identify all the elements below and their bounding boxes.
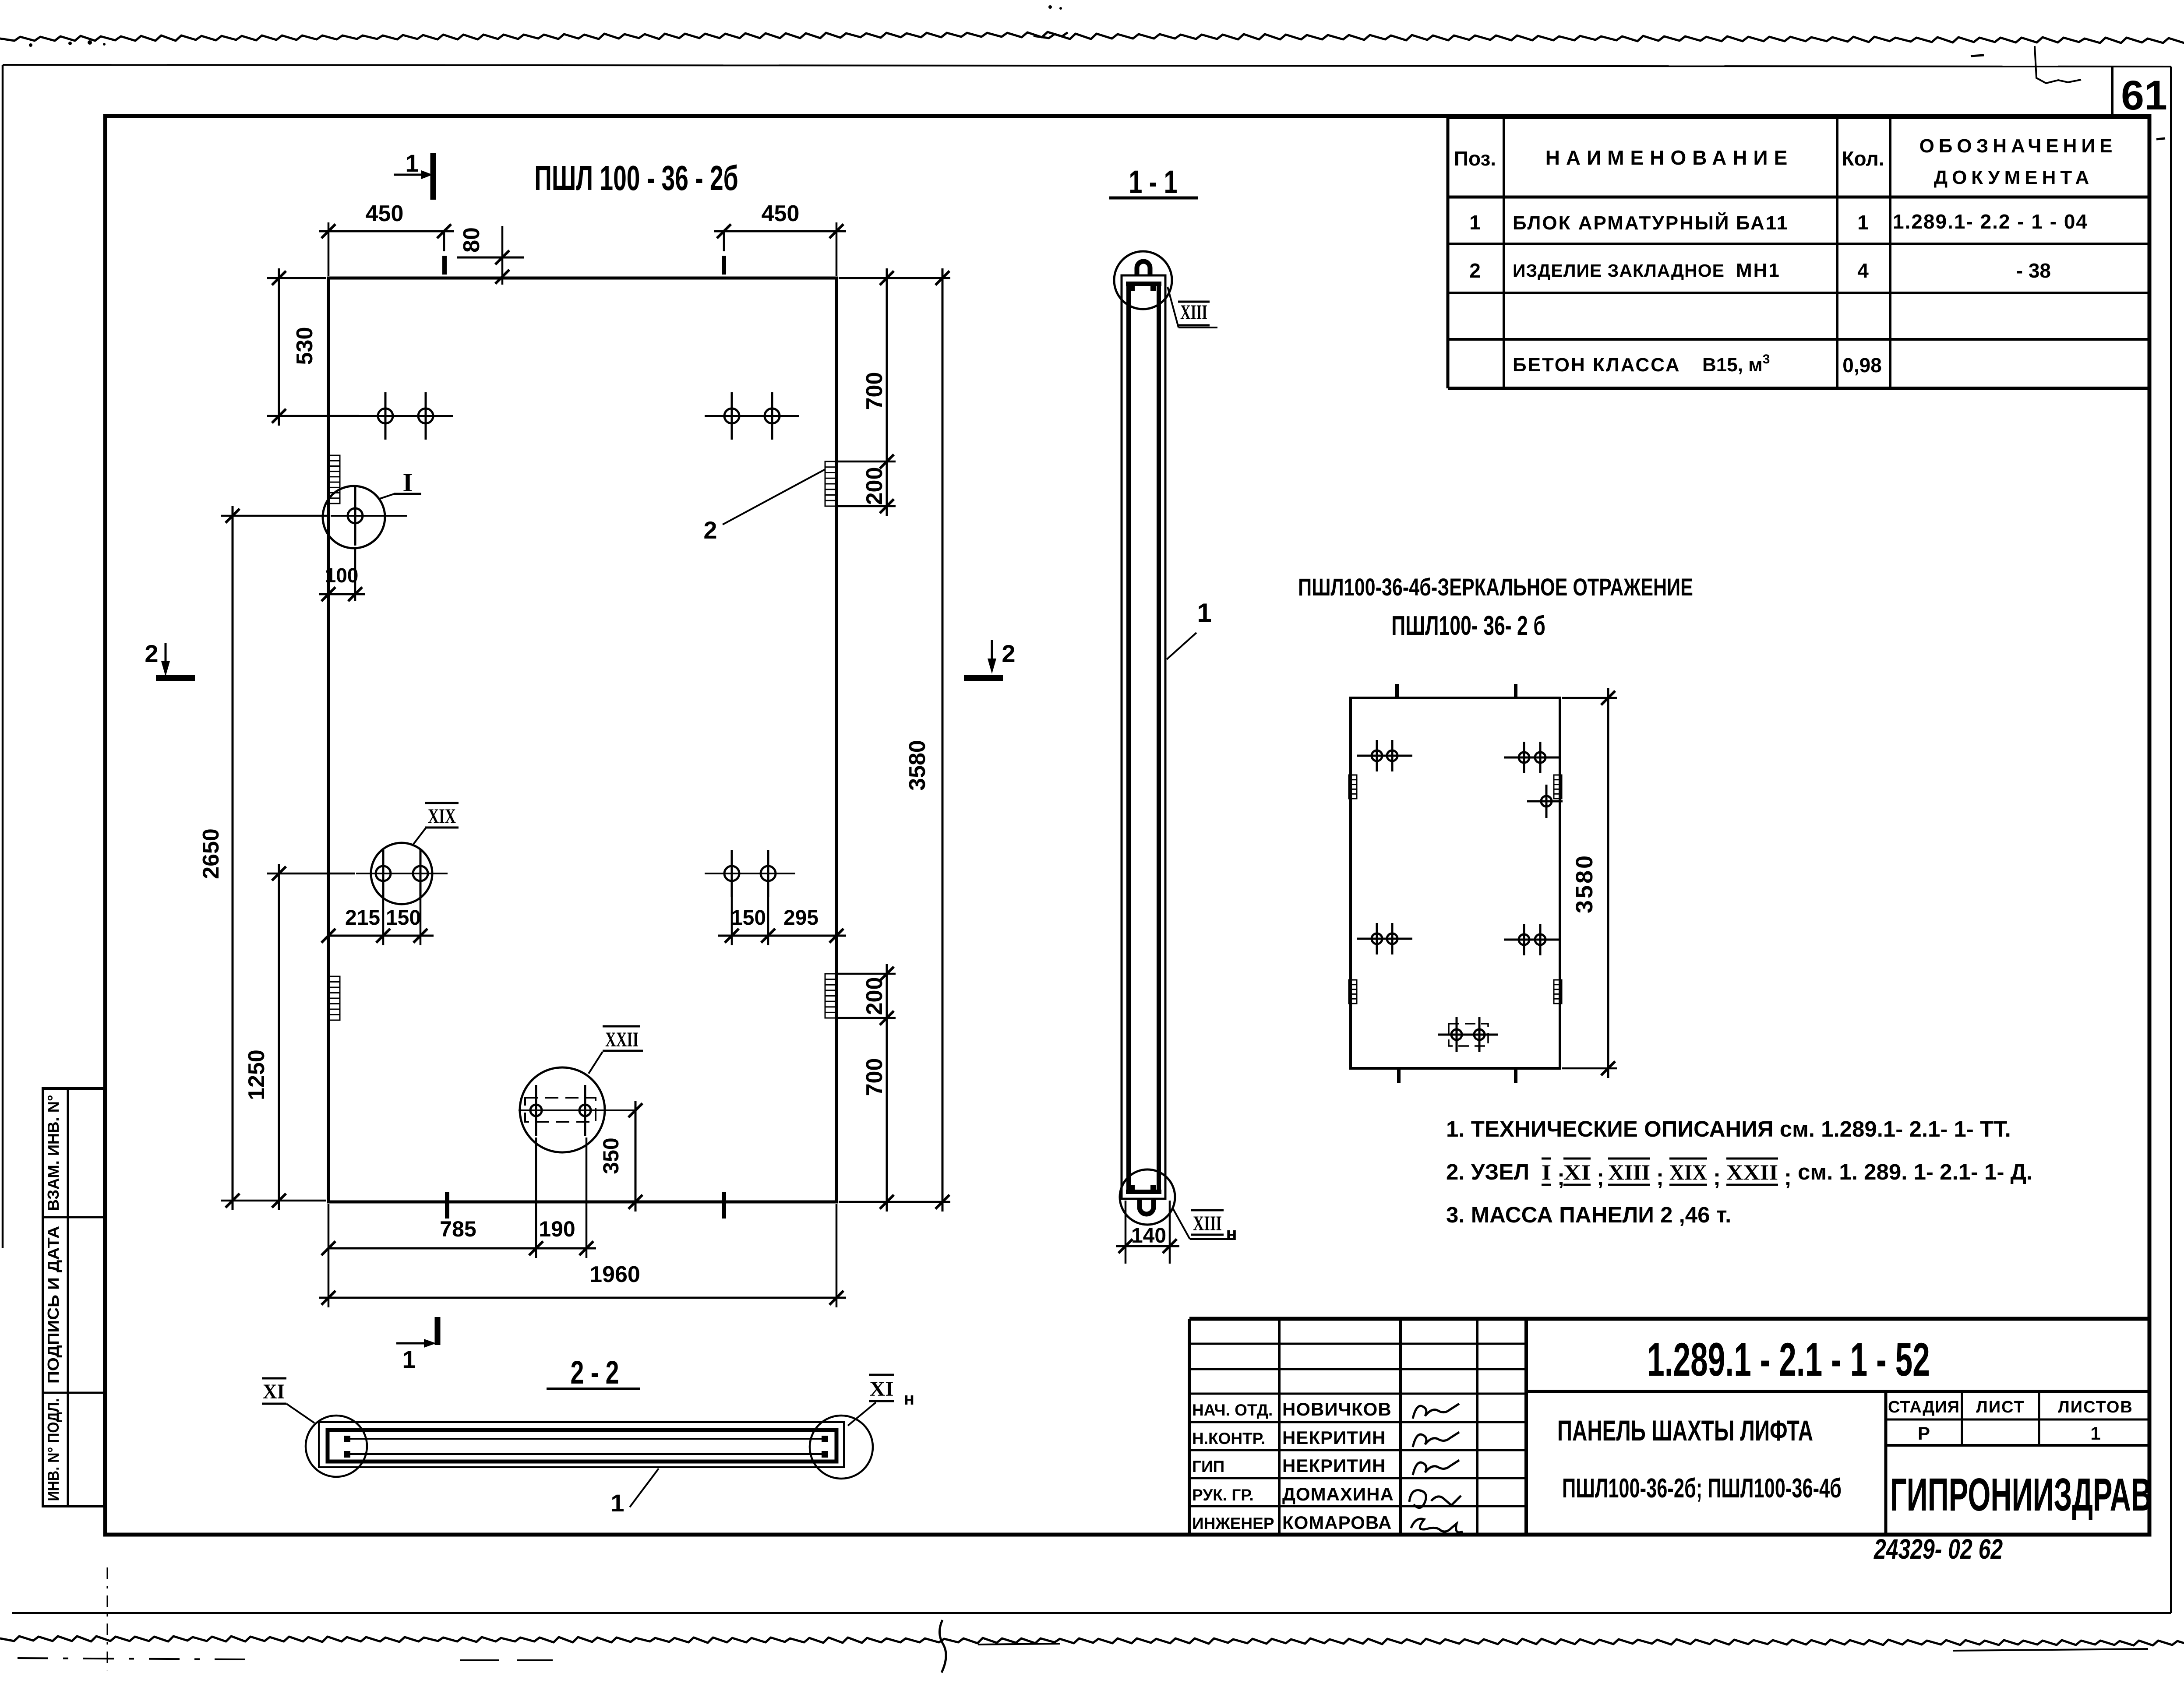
svg-text:295: 295: [783, 906, 819, 930]
svg-text:2 - 2: 2 - 2: [570, 1354, 619, 1391]
svg-text:ОБОЗНАЧЕНИЕ: ОБОЗНАЧЕНИЕ: [1919, 135, 2117, 157]
stadia list cells: [1886, 1419, 2149, 1421]
node circle XI-n right: [810, 1416, 873, 1479]
svg-text:785: 785: [440, 1217, 476, 1241]
svg-text:XI: XI: [870, 1377, 894, 1401]
section mark 1 bottom: [435, 1317, 441, 1345]
svg-text:XI: XI: [263, 1380, 285, 1403]
main panel outline: [328, 278, 836, 1202]
svg-text:1: 1: [1469, 211, 1481, 234]
svg-text:200: 200: [862, 467, 887, 505]
signatures: [1413, 1404, 1459, 1419]
svg-text:530: 530: [292, 327, 318, 365]
svg-text:XIII: XIII: [1193, 1212, 1222, 1235]
dimension 700 lower right: [839, 1201, 950, 1203]
svg-text:ПШЛ100-36-4б-ЗЕРКАЛЬНОЕ ОТРАЖЕ: ПШЛ100-36-4б-ЗЕРКАЛЬНОЕ ОТРАЖЕНИЕ: [1298, 574, 1693, 601]
dimension 3580 main: [942, 268, 944, 1212]
svg-text:ЛИСТОВ: ЛИСТОВ: [2058, 1398, 2133, 1416]
svg-text:;: ;: [1597, 1165, 1604, 1190]
svg-text:;: ;: [1656, 1165, 1664, 1190]
weld plate right lower: [825, 974, 836, 1018]
svg-text:4: 4: [1857, 259, 1869, 282]
svg-text:0,98: 0,98: [1842, 354, 1882, 377]
section 2-2 panel body: [328, 1430, 836, 1462]
dimension 200 lower right: [836, 973, 896, 975]
paper specks top left: [29, 43, 32, 47]
svg-text:150: 150: [731, 906, 766, 930]
svg-text:Н.КОНТР.: Н.КОНТР.: [1192, 1430, 1265, 1447]
svg-text:ПОДПИСЬ И ДАТА: ПОДПИСЬ И ДАТА: [44, 1226, 62, 1384]
svg-text:1.289.1 - 2.1 - 1 - 52: 1.289.1 - 2.1 - 1 - 52: [1647, 1333, 1930, 1386]
document number cell: [1526, 1390, 2149, 1393]
mirror single hole: [1527, 800, 1563, 803]
svg-text:ПШЛ 100 - 36 - 2б: ПШЛ 100 - 36 - 2б: [534, 158, 738, 198]
handwritten doc code: [1874, 1534, 2003, 1565]
svg-text:;: ;: [1784, 1165, 1792, 1190]
section 1-1 panel bar: [1122, 275, 1165, 1199]
svg-text:Кол.: Кол.: [1842, 147, 1884, 170]
svg-text:I: I: [402, 468, 413, 497]
svg-text:БЛОК АРМАТУРНЫЙ: БЛОК АРМАТУРНЫЙ: [1513, 211, 1730, 234]
svg-text:2: 2: [1002, 640, 1015, 667]
lifting loop top (section): [1137, 261, 1150, 276]
svg-text:;: ;: [1713, 1165, 1721, 1190]
holes top-left pair: [358, 415, 453, 417]
svg-text:1. ТЕХНИЧЕСКИЕ ОПИСАНИЯ см. 1: 1. ТЕХНИЧЕСКИЕ ОПИСАНИЯ см. 1.289.1- 2.1…: [1446, 1116, 2011, 1141]
node XIX: holes, circle, label: [356, 873, 448, 874]
main panel title: [534, 158, 738, 198]
weld plate left upper: [329, 455, 340, 504]
weld plate right upper: [825, 461, 836, 506]
svg-text:3580: 3580: [1571, 854, 1598, 913]
svg-text:100: 100: [325, 564, 359, 587]
svg-text:1 - 1: 1 - 1: [1129, 164, 1177, 200]
left vertical stamp table: [43, 1088, 104, 1506]
section 2-2 rebar: [347, 1438, 825, 1440]
dimension 450 left: [328, 222, 330, 276]
svg-text:1: 1: [405, 149, 419, 177]
holes middle-right pair: [705, 873, 795, 874]
svg-text:80: 80: [459, 227, 484, 253]
svg-text:см. 1. 289. 1- 2.1- 1- Д.: см. 1. 289. 1- 2.1- 1- Д.: [1798, 1159, 2032, 1184]
mirror bottom pair with dashed plate: [1438, 1034, 1498, 1036]
approvals table: [1278, 1319, 1281, 1535]
dimension 700 upper right: [839, 277, 950, 279]
dimension 140: [1125, 1201, 1127, 1264]
svg-text:НОВИЧКОВ: НОВИЧКОВ: [1282, 1399, 1392, 1419]
svg-text:ИЗДЕЛИЕ ЗАКЛАДНОЕ: ИЗДЕЛИЕ ЗАКЛАДНОЕ: [1513, 261, 1725, 281]
lifting loop marks bottom: [445, 1192, 449, 1219]
svg-text:МН1: МН1: [1736, 260, 1781, 281]
svg-text:1960: 1960: [589, 1262, 640, 1287]
svg-text:450: 450: [762, 201, 800, 226]
svg-text:БЕТОН КЛАССА: БЕТОН КЛАССА: [1513, 354, 1681, 376]
dimension 350 node XXII: [635, 1101, 637, 1212]
svg-text:1250: 1250: [244, 1050, 269, 1100]
mirror holes top-right pair: [1504, 757, 1559, 759]
svg-text:24329- 02 62: 24329- 02 62: [1874, 1534, 2003, 1565]
dimension 100 node I: [354, 548, 356, 601]
svg-text:ДОМАХИНА: ДОМАХИНА: [1282, 1484, 1394, 1504]
svg-text:1: 1: [2090, 1423, 2100, 1444]
dimension 2650: [221, 515, 328, 517]
svg-text:190: 190: [539, 1217, 575, 1241]
mirror panel titles: [1298, 574, 1693, 601]
svg-text:РУК. ГР.: РУК. ГР.: [1192, 1486, 1254, 1504]
svg-text:КОМАРОВА: КОМАРОВА: [1282, 1512, 1392, 1533]
svg-text:ПШЛ100-36-2б; ПШЛ100-36-4б: ПШЛ100-36-2б; ПШЛ100-36-4б: [1562, 1474, 1842, 1504]
outer thin border: [3, 65, 2171, 67]
svg-text:1: 1: [1197, 598, 1211, 627]
svg-text:3580: 3580: [905, 740, 930, 791]
svg-text:н: н: [1226, 1223, 1237, 1244]
svg-text:2650: 2650: [198, 828, 224, 879]
svg-text:3. МАССА ПАНЕЛИ 2 ,46 т.: 3. МАССА ПАНЕЛИ 2 ,46 т.: [1446, 1202, 1731, 1227]
svg-text:XI: XI: [1563, 1160, 1591, 1184]
torn paper edge bottom: [0, 1636, 2184, 1645]
svg-text:НЕКРИТИН: НЕКРИТИН: [1282, 1455, 1386, 1476]
svg-text:НАЧ. ОТД.: НАЧ. ОТД.: [1192, 1401, 1273, 1419]
lifting loop bottom (section): [1140, 1198, 1154, 1214]
weld plate left lower: [329, 976, 340, 1020]
node circle XI left: [306, 1416, 367, 1477]
svg-text:140: 140: [1131, 1224, 1166, 1247]
svg-text:XIX: XIX: [428, 805, 456, 828]
dimension 530: [267, 277, 326, 279]
scan artifact: L mark top right: [2035, 46, 2081, 83]
dimension 785 190: [535, 1138, 537, 1258]
svg-text:НАИМЕНОВАНИЕ: НАИМЕНОВАНИЕ: [1545, 146, 1794, 169]
dimension 450 right: [723, 231, 725, 251]
node XXII: holes, dashed plate, circle, label: [520, 1067, 605, 1152]
mirror holes mid-right pair: [1504, 939, 1559, 941]
dimension 80: [457, 257, 524, 259]
section 2-2 concrete outline: [319, 1422, 844, 1467]
svg-text:1: 1: [402, 1345, 416, 1373]
svg-text:ВЗАМ. ИНВ. N°: ВЗАМ. ИНВ. N°: [44, 1095, 62, 1211]
svg-text:700: 700: [862, 1058, 887, 1096]
mirror panel outline: [1351, 698, 1560, 1068]
node circle XIII top: [1114, 251, 1172, 309]
organization cell: [1890, 1469, 2152, 1520]
svg-text:НЕКРИТИН: НЕКРИТИН: [1282, 1427, 1386, 1448]
svg-text:БА11: БА11: [1736, 212, 1789, 234]
mirror weld plates: [1349, 775, 1357, 799]
dimension 215 150 left: [382, 897, 385, 945]
node I: hole, circle, label: [331, 515, 407, 517]
panel name cell: [1884, 1391, 1888, 1535]
mirror loops: [1395, 684, 1399, 699]
svg-text:XXII: XXII: [1726, 1160, 1778, 1184]
svg-text:2: 2: [703, 516, 717, 544]
svg-text:2. УЗЕЛ: 2. УЗЕЛ: [1446, 1159, 1529, 1184]
lifting loop marks top: [442, 256, 447, 275]
mirror dimension 3580: [1562, 697, 1617, 699]
svg-text:ПАНЕЛЬ ШАХТЫ ЛИФТА: ПАНЕЛЬ ШАХТЫ ЛИФТА: [1557, 1415, 1813, 1447]
svg-text:ГИП: ГИП: [1192, 1458, 1224, 1476]
svg-text:Поз.: Поз.: [1454, 147, 1496, 170]
svg-text:XIII: XIII: [1180, 301, 1207, 324]
dimension 1250: [267, 873, 355, 875]
svg-text:ИНЖЕНЕР: ИНЖЕНЕР: [1192, 1514, 1274, 1532]
dimension 1960: [328, 1204, 330, 1307]
dimension 200 upper right: [836, 505, 896, 507]
torn paper edge top: [0, 32, 1068, 41]
svg-text:215: 215: [345, 906, 380, 930]
svg-text:Р: Р: [1918, 1423, 1930, 1444]
dimension 150 295 right: [731, 897, 733, 945]
drawing frame: [105, 116, 2149, 1535]
svg-text:ИНВ. N° ПОДЛ.: ИНВ. N° ПОДЛ.: [44, 1398, 62, 1501]
svg-text:ЛИСТ: ЛИСТ: [1976, 1398, 2025, 1416]
svg-text:1: 1: [610, 1489, 624, 1517]
section 2-2 header: [570, 1354, 619, 1391]
svg-text:700: 700: [862, 372, 887, 410]
svg-text:150: 150: [386, 906, 421, 930]
svg-text:XXII: XXII: [605, 1028, 639, 1051]
title block frame: [1189, 1317, 2149, 1321]
svg-text:СТАДИЯ: СТАДИЯ: [1888, 1398, 1960, 1416]
page number box: [2111, 67, 2113, 117]
svg-text:1.289.1- 2.2 - 1 - 04: 1.289.1- 2.2 - 1 - 04: [1893, 210, 2088, 233]
svg-text:ПШЛ100- 36- 2 б: ПШЛ100- 36- 2 б: [1391, 611, 1545, 641]
holes top-right pair: [705, 415, 799, 417]
svg-text:ДОКУМЕНТА: ДОКУМЕНТА: [1934, 167, 2094, 188]
svg-text:450: 450: [366, 201, 404, 226]
section mark 1 top: [430, 153, 436, 200]
svg-text:2: 2: [1469, 259, 1481, 282]
svg-text:XIX: XIX: [1669, 1160, 1707, 1184]
svg-text:XIII: XIII: [1608, 1160, 1650, 1184]
node circle XIII-n bottom: [1120, 1169, 1175, 1225]
svg-text:I: I: [1542, 1160, 1551, 1184]
svg-text:350: 350: [599, 1138, 623, 1174]
scan artifact: fold mark bottom: [107, 1567, 108, 1670]
mirror holes top-left pair: [1357, 755, 1412, 757]
mirror holes mid-left pair: [1357, 938, 1412, 940]
svg-text:1: 1: [1857, 211, 1869, 234]
svg-text:61: 61: [2121, 72, 2167, 119]
section 1-1 header: [1129, 164, 1177, 200]
parts table: [1448, 116, 2149, 119]
svg-text:В15, м3: В15, м3: [1702, 352, 1770, 376]
svg-text:н: н: [904, 1389, 914, 1409]
svg-text:200: 200: [862, 977, 887, 1015]
svg-text:- 38: - 38: [2016, 259, 2051, 282]
svg-text:2: 2: [145, 640, 158, 667]
svg-text:ГИПРОНИИЗДРАВ: ГИПРОНИИЗДРАВ: [1890, 1469, 2152, 1520]
